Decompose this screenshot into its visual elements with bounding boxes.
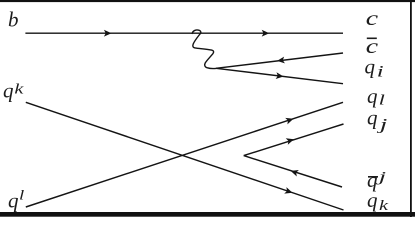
arrow on qj line (away from vertex)	[286, 136, 295, 145]
wire vertex2 -> qj	[244, 124, 344, 156]
wire vertex -> qi	[216, 68, 343, 83]
wire qk -> qk (crossing line, down-right)	[26, 102, 344, 210]
wire ql -> ql (crossing line, up-right)	[26, 102, 343, 207]
svg-text:l: l	[379, 92, 385, 108]
svg-text:i: i	[377, 62, 384, 80]
bottom border rule	[0, 212, 415, 217]
svg-text:l: l	[19, 187, 25, 203]
svg-text:b: b	[8, 8, 19, 32]
top border rule	[0, 0, 415, 2]
arrow on qbar j line (toward vertex)	[290, 168, 299, 177]
arrow on qk line	[284, 187, 293, 196]
svg-text:q: q	[3, 79, 14, 103]
arrow on b line segment 1	[104, 30, 112, 37]
svg-text:c: c	[366, 7, 378, 30]
svg-text:k: k	[14, 80, 24, 97]
wire b -> c fermion line	[25, 32, 343, 34]
svg-text:q: q	[8, 188, 19, 212]
gluon wavy line	[192, 30, 216, 69]
arrow on ql line	[285, 115, 294, 124]
svg-text:q: q	[367, 84, 378, 108]
svg-text:q: q	[367, 188, 378, 212]
wire vertex2 -> qbar j	[244, 156, 342, 187]
wire vertex -> cbar	[216, 53, 343, 68]
arrow on b line segment 2	[262, 30, 270, 37]
svg-text:k: k	[379, 197, 389, 214]
svg-text:q: q	[367, 106, 378, 130]
arrow on cbar line (toward vertex)	[277, 57, 285, 65]
right border rule	[410, 0, 412, 217]
arrow on qi line (away from vertex)	[276, 72, 284, 80]
svg-text:q: q	[365, 54, 376, 78]
